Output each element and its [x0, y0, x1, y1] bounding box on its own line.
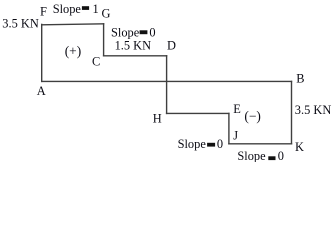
- svg-text:F: F: [40, 5, 47, 19]
- svg-text:A: A: [37, 84, 46, 98]
- wire A-F left vertical: [41, 24, 43, 81]
- wire A-B baseline axis: [42, 80, 292, 82]
- wire C-D horizontal slope 0: [104, 55, 167, 57]
- wire H-E horizontal: [167, 112, 229, 114]
- svg-text:Slope: Slope: [178, 137, 207, 151]
- svg-text:1.5 KN: 1.5 KN: [115, 38, 152, 52]
- svg-text:K: K: [295, 140, 304, 154]
- svg-text:(−): (−): [244, 108, 260, 123]
- svg-text:0: 0: [278, 149, 284, 162]
- svg-text:J: J: [233, 128, 238, 142]
- wire J-K bottom edge slope 0: [229, 143, 292, 145]
- svg-text:G: G: [102, 7, 111, 21]
- svg-text:Slope: Slope: [111, 25, 140, 39]
- wire G-C vertical drop: [103, 24, 105, 56]
- wire F-G top edge slope 1: [42, 24, 104, 25]
- svg-text:(+): (+): [65, 43, 81, 58]
- svg-text:E: E: [233, 102, 241, 116]
- wire B-K right vertical: [291, 81, 293, 143]
- svg-text:Slope: Slope: [53, 2, 82, 16]
- svg-text:1: 1: [93, 2, 99, 16]
- svg-text:0: 0: [149, 25, 155, 39]
- svg-text:Slope: Slope: [237, 149, 266, 162]
- svg-text:B: B: [296, 72, 304, 86]
- wire D-H vertical drop: [166, 56, 168, 114]
- svg-text:H: H: [153, 112, 162, 126]
- svg-text:C: C: [92, 55, 100, 69]
- svg-text:D: D: [167, 38, 176, 52]
- svg-text:0: 0: [217, 137, 223, 151]
- svg-text:3.5 KN: 3.5 KN: [295, 103, 332, 117]
- wire E-J vertical drop: [228, 113, 230, 143]
- svg-text:3.5 KN: 3.5 KN: [2, 17, 39, 31]
